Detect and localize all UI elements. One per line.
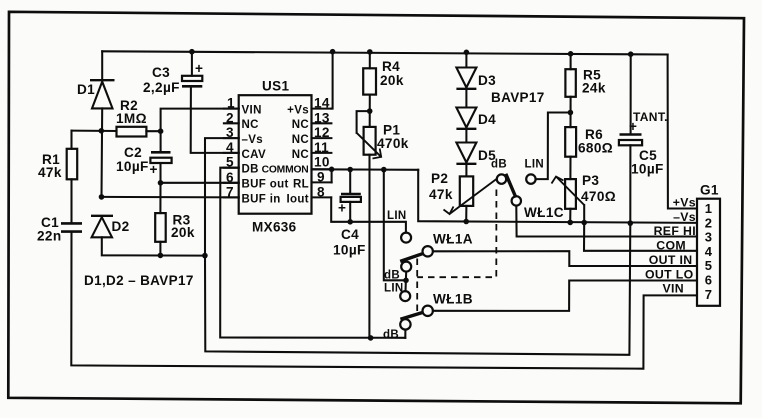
svg-text:REF HI: REF HI — [654, 224, 696, 238]
svg-text:Iout: Iout — [287, 193, 309, 205]
wire: WL1B pole to G1 pin 6 OUT LO — [433, 281, 697, 311]
resistor R6 — [565, 127, 613, 157]
switch WL1B: LIN contact — [400, 291, 410, 301]
junction C5/top rail — [628, 51, 634, 57]
junction C2/R3/BUF out — [158, 180, 164, 186]
potentiometer P3 — [552, 173, 616, 209]
wire: dB run up into WL1B dB contact — [404, 330, 406, 338]
svg-text:dB: dB — [383, 329, 399, 341]
US1 right pin stubs 14-8 — [312, 109, 332, 198]
diode D3 — [456, 68, 496, 89]
svg-text:7: 7 — [705, 287, 713, 302]
svg-text:+Vs: +Vs — [673, 196, 696, 210]
svg-text:RL: RL — [293, 179, 309, 191]
resistor R4 — [363, 59, 404, 95]
svg-text:470k: 470k — [377, 136, 409, 151]
wire: R4 bottom to P1 junction — [369, 95, 371, 127]
wire: WL1C pole down and to G1 pin 3 REF HI — [516, 206, 697, 237]
svg-text:–Vs: –Vs — [673, 210, 696, 224]
wire: junction to US1 pin 6 BUF out — [161, 182, 239, 184]
junction D1-D2 line with R1/R2 wire — [99, 128, 105, 134]
junction R5/top rail — [568, 51, 574, 57]
resistor R5 top wire — [570, 54, 572, 69]
switch WL1B: dB contact — [400, 319, 410, 329]
wire: US1 pin 7 BUF in to node A — [102, 196, 239, 199]
wire: P3 wiper down to -Vs/COM node — [583, 205, 585, 223]
wire: node B up and to US1 pin 1 VIN — [161, 109, 239, 132]
svg-text:D1,D2 – BAVP17: D1,D2 – BAVP17 — [84, 273, 194, 288]
wire: pin 9 RL up to COMMON rail — [331, 169, 333, 182]
wire: R4 top from rail — [369, 52, 371, 68]
svg-text:10µF: 10µF — [116, 159, 149, 174]
switch WL1A: dB contact — [401, 262, 411, 272]
junction R5/R6/WL1C-LIN — [568, 110, 574, 116]
svg-text:20k: 20k — [380, 73, 404, 88]
wire: R1 top drop — [70, 131, 72, 149]
diode D1 — [77, 80, 115, 108]
junction C4/Iout — [347, 219, 353, 225]
svg-text:4: 4 — [705, 244, 713, 259]
wire: C3 top to rail — [191, 52, 193, 76]
wire: C1 down, VIN bottom run to G1 pin 7 — [71, 232, 697, 369]
svg-text:10: 10 — [314, 155, 330, 170]
junction lower-left rail / -Vs vertical — [202, 253, 208, 259]
svg-text:COM: COM — [656, 238, 686, 252]
wire: R6 bottom to P3 — [569, 157, 571, 179]
wire: D4 to D5 — [465, 129, 467, 143]
junction RL/COMMON — [329, 167, 335, 173]
junction R4/top rail — [367, 49, 373, 55]
svg-text:7: 7 — [226, 184, 234, 199]
svg-text:D3: D3 — [478, 73, 496, 88]
G1 pin numbers 1-7 — [705, 201, 713, 302]
svg-text:NC: NC — [242, 119, 259, 131]
svg-text:COMMON: COMMON — [262, 165, 309, 176]
wire: D1 top to rail — [101, 51, 103, 80]
svg-text:VIN: VIN — [662, 282, 684, 296]
svg-text:OUT LO: OUT LO — [645, 268, 694, 282]
svg-text:1: 1 — [227, 96, 235, 111]
wire: D2 anode to lower-left rail — [102, 237, 205, 255]
diode D4 — [456, 108, 496, 129]
svg-text:MX636: MX636 — [252, 220, 297, 235]
junction dB run / COMMON drop — [368, 335, 374, 341]
connector G1 box — [697, 183, 720, 306]
svg-text:dB: dB — [491, 159, 507, 171]
junction C3/top rail — [189, 49, 195, 55]
switch WL1C: pole contact — [512, 196, 521, 205]
switch WL1C: dB contact — [497, 174, 506, 183]
svg-text:C4: C4 — [341, 227, 359, 242]
resistor R1 — [38, 149, 77, 180]
dashed mechanical linkage WL1C to WL1A/WL1B — [417, 190, 496, 316]
potentiometer P2 — [429, 171, 497, 214]
wire: +Vs top rail — [102, 51, 667, 54]
svg-text:WŁ1C: WŁ1C — [524, 205, 564, 220]
wire: R3 bottom to lower-left rail — [159, 242, 161, 256]
switch WL1A: lever — [400, 253, 423, 261]
switch WL1C: lever — [506, 174, 516, 198]
svg-text:680Ω: 680Ω — [578, 141, 613, 156]
svg-text:LIN: LIN — [525, 159, 545, 171]
wire: P2 bottom to -Vs/COMMON row — [465, 206, 467, 222]
svg-text:NC: NC — [292, 119, 309, 131]
svg-text:47k: 47k — [38, 165, 62, 180]
svg-text:20k: 20k — [171, 225, 195, 240]
wire: D3 to D4 — [465, 89, 467, 108]
wire: -Vs bottom run to C5 bottom — [205, 223, 630, 355]
svg-text:US1: US1 — [262, 79, 289, 94]
switch WL1A: pole contact — [423, 246, 433, 256]
wire: D1 anode down to node A — [100, 108, 103, 196]
wire: R1 bottom to C1 — [70, 179, 72, 223]
svg-text:–Vs: –Vs — [242, 134, 264, 146]
wire: node B down to C2 — [160, 131, 162, 152]
junction P3 wiper row — [581, 220, 587, 226]
diode D2 — [91, 216, 130, 238]
junction pin14/top rail — [330, 49, 336, 55]
svg-text:1MΩ: 1MΩ — [116, 111, 147, 126]
svg-text:C2: C2 — [124, 145, 142, 160]
wire: D5 to P2 — [465, 164, 467, 177]
junction COMMON/dB ladder drop — [381, 167, 387, 173]
wire: COMMON rail from pin 10 — [312, 168, 419, 171]
switch WL1B: lever — [400, 312, 423, 319]
svg-text:24k: 24k — [582, 81, 606, 96]
junction P2 bottom — [463, 219, 469, 225]
potentiometer P1 — [357, 111, 409, 158]
US1 right pin numbers 14-8 — [314, 96, 330, 200]
capacitor C5 (tantalum) — [619, 110, 668, 177]
svg-text:1: 1 — [705, 201, 713, 216]
junction R3 bottom — [158, 253, 164, 259]
svg-text:470Ω: 470Ω — [581, 189, 616, 204]
capacitor C2 (electrolytic) — [116, 145, 172, 177]
svg-text:6: 6 — [226, 170, 234, 185]
wire: R5 bottom to R6 — [569, 97, 571, 127]
svg-text:dB: dB — [384, 270, 400, 282]
svg-text:+: + — [195, 61, 203, 76]
svg-text:DB: DB — [242, 164, 259, 176]
resistor R2 — [116, 98, 147, 137]
US1 internal pin labels — [242, 105, 310, 206]
wire: D3 top from rail — [465, 52, 467, 67]
junction C5 bottom / -Vs — [628, 220, 634, 226]
svg-text:+: + — [629, 119, 637, 134]
wire: C5 bottom to -Vs row — [629, 145, 631, 223]
wire: input node to R2 left — [72, 130, 117, 132]
wire: pin 14 +Vs up to top rail — [331, 52, 332, 109]
svg-text:CAV: CAV — [242, 149, 266, 161]
svg-text:D2: D2 — [112, 219, 130, 234]
svg-text:LIN: LIN — [387, 210, 407, 222]
wire: C4 top from COMMON rail — [349, 170, 351, 194]
svg-text:P2: P2 — [431, 171, 448, 186]
svg-text:D1: D1 — [77, 82, 95, 97]
junction R4/P1/wiper — [367, 108, 373, 114]
svg-text:BUF out: BUF out — [242, 179, 289, 191]
svg-text:8: 8 — [317, 184, 325, 199]
svg-text:TANT.: TANT. — [633, 110, 668, 124]
wire: pin 8 Iout right, down, across to WL1A LIN contact — [331, 197, 406, 232]
svg-text:47k: 47k — [429, 187, 453, 202]
switch WL1A: LIN contact — [401, 233, 411, 243]
svg-text:D4: D4 — [478, 112, 496, 127]
svg-text:VIN: VIN — [242, 105, 262, 117]
svg-text:10µF: 10µF — [333, 243, 366, 258]
wire: COM branch down and to G1 pin 4 — [584, 223, 697, 251]
wire: C4 bottom to Iout run — [349, 202, 351, 222]
capacitor C3 (electrolytic, CAV) — [143, 61, 203, 95]
wire: WL1A dB contact to WL1B LIN contact tie — [404, 272, 407, 292]
svg-text:5: 5 — [705, 258, 713, 273]
svg-text:C3: C3 — [152, 65, 170, 80]
svg-text:9: 9 — [317, 169, 325, 184]
wire: COMMON drop to dB/LIN tie (ladder) — [384, 170, 406, 281]
svg-text:6: 6 — [705, 273, 713, 288]
svg-text:P3: P3 — [582, 173, 599, 188]
svg-text:G1: G1 — [700, 183, 719, 198]
resistor R5 — [565, 68, 605, 97]
resistor R3 — [155, 213, 195, 242]
wire: C2 bottom to junction with BUF out — [159, 163, 161, 183]
wire: COMMON rail down at right and across (-Vs row) to G1 pin 2 — [418, 170, 697, 223]
svg-text:12: 12 — [314, 125, 330, 140]
op-amp/RMS chip U1 (US1 MX636) body — [239, 79, 312, 235]
junction COMMON/C4 — [347, 167, 353, 173]
svg-text:R4: R4 — [382, 59, 400, 74]
svg-text:22n: 22n — [37, 229, 61, 244]
junction D3/top rail — [464, 50, 470, 56]
svg-text:10µF: 10µF — [631, 162, 664, 177]
diode D5 — [456, 143, 496, 164]
svg-text:WŁ1A: WŁ1A — [433, 232, 473, 247]
capacitor C4 (electrolytic) — [333, 194, 366, 258]
svg-text:3: 3 — [705, 230, 713, 245]
svg-text:BAVP17: BAVP17 — [491, 90, 545, 105]
wire: P3 bottom to -Vs row — [569, 209, 571, 223]
svg-text:2: 2 — [226, 110, 234, 125]
svg-text:+: + — [150, 162, 158, 177]
svg-text:BUF in: BUF in — [242, 193, 281, 205]
svg-text:11: 11 — [314, 140, 329, 155]
wire: WL1C LIN to R5/R6 junction — [536, 113, 571, 180]
wire: pin 3 -Vs left and down to -Vs net — [205, 138, 239, 256]
svg-text:WŁ1B: WŁ1B — [433, 292, 473, 307]
junction tie — [403, 278, 409, 284]
wire: junction down to R3 — [159, 183, 161, 213]
node B junction — [158, 128, 164, 134]
G1 wire labels — [645, 196, 696, 296]
US1 left pin stubs 1-7 — [224, 109, 239, 198]
junction P3 bottom — [567, 220, 573, 226]
US1 left pin numbers 1-7 — [226, 96, 235, 200]
svg-text:+Vs: +Vs — [287, 105, 309, 117]
svg-text:2: 2 — [705, 215, 713, 230]
svg-text:13: 13 — [314, 110, 330, 125]
node A junction (D1/D2/BUF in) — [99, 194, 105, 200]
switch WL1B: pole contact — [423, 306, 433, 316]
capacitor C5 top wire — [630, 54, 632, 134]
switch WL1C: LIN contact — [526, 174, 535, 183]
svg-text:2,2µF: 2,2µF — [143, 80, 180, 95]
svg-text:NC: NC — [292, 134, 309, 146]
svg-text:OUT IN: OUT IN — [649, 253, 693, 267]
wire: pin 5 DB left and down, dB bottom run — [220, 168, 405, 338]
wire: R2 right to vertical node B — [146, 130, 160, 132]
svg-text:NC: NC — [292, 149, 309, 161]
capacitor C1 — [37, 215, 82, 244]
svg-text:+: + — [338, 201, 346, 216]
wire: WL1A pole to G1 pin 5 OUT IN — [433, 251, 697, 266]
wire: P1 bottom to COMMON rail, continues down to dB junction — [368, 155, 370, 338]
wire: pin 4 CAV left and up to C3 — [191, 87, 239, 153]
svg-text:14: 14 — [314, 96, 330, 111]
wire: +Vs corner down to G1 pin 1 — [668, 55, 697, 209]
